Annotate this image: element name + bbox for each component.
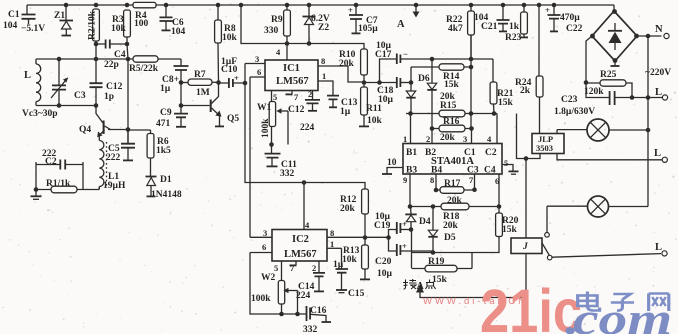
svg-text:C4: C4	[484, 166, 496, 176]
svg-text:2: 2	[426, 134, 430, 144]
svg-text:6: 6	[262, 242, 266, 252]
resistor R11 10k	[359, 83, 383, 127]
svg-text:2k: 2k	[520, 86, 531, 96]
svg-text:1: 1	[322, 71, 326, 81]
svg-text:B4: B4	[431, 166, 442, 176]
svg-text:D1: D1	[160, 175, 172, 185]
capacitor C5 222	[106, 130, 135, 164]
svg-text:10k: 10k	[342, 255, 358, 265]
svg-text:R9: R9	[271, 15, 283, 25]
capacitor C9 471	[156, 83, 188, 130]
wire bridge to N terminal	[637, 35, 662, 37]
capacitor C11 332	[265, 145, 298, 180]
wire C23 node to L terminal 1	[632, 97, 662, 99]
svg-text:332: 332	[303, 325, 318, 334]
svg-text:1µ: 1µ	[340, 107, 351, 117]
zener Z2 6.2V	[303, 3, 330, 46]
svg-text:D4: D4	[419, 217, 431, 227]
svg-text:1µ: 1µ	[160, 84, 171, 94]
wire Q4 collector line	[108, 129, 151, 132]
capacitor C2 222 / resistor R1 1k parallel	[36, 149, 99, 193]
svg-text:10: 10	[387, 158, 397, 168]
svg-text:IC2: IC2	[292, 234, 309, 245]
svg-text:R5/22k: R5/22k	[129, 64, 159, 74]
svg-text:15k: 15k	[502, 225, 518, 235]
wire IC1 pin1 lead to C13	[318, 81, 333, 95]
watermark dianziwang	[578, 292, 669, 312]
wire IC1 pin5 lead	[271, 91, 273, 102]
svg-text:R7: R7	[194, 70, 206, 80]
resistor R24 2k	[515, 3, 543, 134]
capacitor C23 1.8u/630V	[554, 83, 634, 118]
node N terminal	[664, 33, 669, 38]
resistor R7 1M	[179, 70, 219, 98]
svg-text:+: +	[402, 219, 407, 229]
svg-text:B1: B1	[406, 148, 417, 158]
svg-text:C16: C16	[310, 306, 327, 316]
svg-text:C15: C15	[348, 289, 365, 299]
svg-text:R15: R15	[440, 101, 457, 111]
diode D2 (C18 node to B1 line)	[406, 67, 415, 114]
svg-text:LM567: LM567	[276, 76, 309, 87]
zener Z1	[54, 3, 73, 36]
svg-text:6: 6	[257, 67, 261, 77]
svg-text:B3: B3	[406, 166, 417, 176]
svg-text:8: 8	[321, 56, 325, 66]
resistor R10 20k	[339, 49, 367, 83]
wire top +V rail	[27, 4, 614, 6]
node 接A点 arrow	[416, 284, 424, 293]
svg-text:R2/10k: R2/10k	[88, 10, 98, 40]
svg-text:471: 471	[156, 119, 171, 129]
wire IC2 pin8 node line	[327, 236, 389, 238]
resistor R6 1k5	[147, 130, 171, 176]
svg-text:1k: 1k	[509, 22, 520, 32]
svg-text:W1: W1	[257, 103, 272, 113]
wire IC2 pin1 lead	[327, 247, 342, 249]
svg-text:R11: R11	[366, 104, 382, 114]
variable capacitor Vc 3~30p	[22, 59, 68, 119]
svg-text:5: 5	[274, 263, 278, 273]
resistor R16 20k	[430, 117, 472, 143]
node A (arrow on rail)	[397, 3, 420, 30]
svg-text:5: 5	[273, 92, 277, 102]
svg-text:10µ: 10µ	[377, 269, 393, 279]
wire IC1 pin4 supply lead	[286, 44, 288, 61]
resistor R15 20k (inline y113.5)	[406, 92, 497, 117]
svg-text:10k: 10k	[111, 24, 127, 34]
capacitor C10 1uF	[219, 57, 248, 88]
svg-text:15k: 15k	[498, 98, 514, 108]
svg-text:3503: 3503	[536, 143, 553, 153]
svg-text:C3: C3	[74, 91, 86, 101]
svg-text:C21: C21	[481, 22, 498, 32]
resistor R4 100 (inline in rail)	[133, 2, 156, 29]
svg-text:10k: 10k	[367, 116, 383, 126]
svg-text:A: A	[417, 281, 425, 292]
capacitor C12b 224 (pin 2)	[288, 89, 320, 133]
resistor R20 15k	[472, 207, 519, 253]
resistor R17 20k	[434, 179, 477, 206]
resistor R3 10k	[111, 3, 130, 44]
svg-text:C17: C17	[375, 50, 392, 60]
svg-text:1N4148: 1N4148	[151, 190, 182, 200]
svg-text:Vc3~30p: Vc3~30p	[22, 109, 58, 119]
wire R3 bottom to collector line	[127, 44, 128, 59]
svg-text:7: 7	[294, 92, 299, 102]
wire IC2 pin6 lead	[250, 252, 272, 254]
wire STA401A pin1/pin2 leads	[411, 114, 433, 144]
wire D6 node line y59	[432, 58, 493, 60]
svg-text:C2: C2	[45, 157, 57, 167]
diode D5	[428, 207, 456, 253]
svg-text:IC1: IC1	[283, 63, 300, 74]
svg-text:222: 222	[106, 153, 121, 163]
svg-text:Q5: Q5	[227, 114, 239, 124]
resistor R8 10k	[215, 3, 238, 83]
svg-text:20k: 20k	[340, 204, 356, 214]
svg-text:22p: 22p	[104, 60, 119, 70]
wire IC2 pin6 loop to bottom line	[250, 253, 306, 315]
transistor Q4	[79, 106, 111, 141]
svg-text:4k7: 4k7	[448, 24, 463, 34]
lamp EL2	[547, 196, 648, 217]
resistor R2 10k	[88, 3, 100, 44]
svg-text:4: 4	[305, 220, 310, 230]
svg-text:8: 8	[430, 175, 434, 185]
svg-text:20k: 20k	[443, 221, 459, 231]
svg-text:1M: 1M	[196, 88, 210, 98]
wire STA401A pin4 lead	[496, 114, 498, 144]
ground (oscillator)	[31, 187, 42, 199]
capacitor C4 22p	[94, 40, 130, 71]
capacitor C12 1p	[90, 59, 123, 106]
wire IC1 pin6 lead	[250, 76, 265, 78]
svg-text:7: 7	[469, 175, 474, 185]
svg-text:4: 4	[276, 47, 281, 57]
wire R2 bottom to oscillator node	[95, 44, 97, 59]
capacitor C14 224 (pin 2)	[296, 261, 325, 301]
wire IC2 pin7 lead + ground	[295, 261, 297, 265]
svg-text:104: 104	[171, 27, 186, 37]
svg-text:5: 5	[504, 158, 508, 168]
svg-text:Z2: Z2	[318, 23, 329, 33]
wire STA401A pin5 ground	[502, 158, 519, 174]
svg-text:330: 330	[264, 26, 279, 36]
svg-text:L: L	[655, 87, 662, 98]
transistor array U2 STA401A box	[403, 134, 502, 176]
capacitor C21 104	[474, 3, 510, 32]
wire bridge bottom stub	[614, 61, 616, 66]
svg-text:Z1: Z1	[54, 11, 65, 21]
svg-text:100k: 100k	[251, 294, 271, 304]
svg-text:C10: C10	[221, 65, 238, 75]
svg-text:1p: 1p	[104, 92, 114, 102]
op-amp U1 IC1 LM567 box	[265, 60, 318, 91]
resistor R12 20k	[340, 189, 368, 238]
wire IC2 pin4 lead	[303, 183, 305, 230]
resistor R23 1k	[505, 3, 528, 43]
capacitor C18 10u	[377, 77, 411, 105]
svg-text:C20: C20	[375, 257, 392, 267]
wire IC1 pin3 lead	[245, 63, 265, 65]
diode D1 1N4148	[146, 175, 182, 200]
svg-text:L: L	[655, 242, 662, 253]
relay J coil	[511, 156, 542, 297]
svg-text:9: 9	[403, 175, 407, 185]
inductor L1 19uH	[99, 141, 126, 192]
svg-text:3: 3	[463, 134, 467, 144]
svg-text:15k: 15k	[444, 80, 460, 90]
svg-text:L: L	[24, 70, 31, 81]
resistor R18 20k	[408, 203, 502, 231]
svg-text:R16: R16	[443, 117, 460, 127]
resistor R19 15k (parallel loop)	[412, 230, 473, 286]
svg-text:C22: C22	[566, 24, 583, 34]
svg-text:20k: 20k	[339, 59, 355, 69]
svg-text:R1/1k: R1/1k	[46, 179, 71, 189]
svg-text:+: +	[545, 5, 550, 15]
wire IC1 pin8 lead	[318, 66, 364, 82]
wire IC2 pin3 lead	[250, 236, 272, 238]
wire long vertical IC1 pin6 to IC2 pin3	[249, 77, 251, 237]
wire bridge left to R25/C23	[586, 36, 592, 83]
svg-text:C3: C3	[467, 166, 479, 176]
svg-text:1: 1	[403, 134, 407, 144]
svg-text:+: +	[348, 5, 353, 15]
resistor R9 330	[264, 3, 290, 46]
svg-text:−: −	[403, 49, 408, 59]
svg-text:~220V: ~220V	[645, 68, 671, 78]
svg-text:W2: W2	[261, 273, 276, 283]
resistor R22 4k7	[446, 3, 474, 59]
capacitor C13 1u	[327, 96, 358, 117]
wire JLP out high to lamp EL1	[556, 130, 558, 134]
svg-text:3: 3	[263, 228, 267, 238]
svg-text:120k: 120k	[584, 87, 604, 97]
capacitor C20 10u	[375, 238, 433, 280]
svg-text:105µ: 105µ	[358, 24, 378, 34]
capacitor C1	[3, 5, 45, 34]
optocoupler U3 JLP 3503	[532, 134, 564, 154]
svg-text:C9: C9	[160, 108, 172, 118]
node L terminal 3	[662, 251, 667, 256]
lamp EL1	[557, 119, 650, 141]
wire IC1 pin7 lead + ground	[291, 91, 293, 95]
svg-text:10µ: 10µ	[378, 95, 394, 105]
svg-text:3: 3	[255, 54, 259, 64]
svg-text:2: 2	[308, 89, 312, 99]
svg-text:224: 224	[296, 291, 311, 301]
svg-text:C19: C19	[374, 221, 391, 231]
svg-text:100k: 100k	[261, 118, 271, 138]
svg-text:4: 4	[487, 134, 492, 144]
svg-text:Q4: Q4	[79, 125, 91, 135]
svg-text:470µ: 470µ	[560, 13, 580, 23]
wire STA401A pin6 lead	[498, 174, 500, 207]
svg-text:C12: C12	[288, 105, 305, 115]
svg-text:1µ: 1µ	[333, 260, 344, 270]
svg-text:C1: C1	[8, 10, 20, 20]
resistor R25 120k	[584, 70, 632, 98]
resistor R13 10k	[342, 238, 370, 280]
wire mains vertical (~220V)	[647, 36, 649, 207]
svg-text:224: 224	[300, 123, 315, 133]
switch S (relay contact)	[542, 206, 661, 260]
svg-text:1k5: 1k5	[156, 146, 171, 156]
wire oscillator tank top line	[36, 58, 181, 60]
svg-text:104: 104	[3, 21, 18, 31]
node L terminal 2	[662, 157, 667, 162]
svg-text:.com: .com	[565, 295, 672, 334]
resistor R21 15k	[490, 59, 514, 114]
wire long vertical IC1 pin3/C10 to y182 line	[245, 64, 365, 190]
op-amp U4 IC2 LM567 box	[272, 230, 327, 262]
wire R22 node vertical to STA401A pin3	[470, 35, 473, 144]
wire STA401A pin9 lead	[409, 174, 411, 207]
svg-text:D6: D6	[418, 74, 430, 84]
capacitor C7 105u electrolytic	[348, 3, 378, 34]
svg-text:1: 1	[330, 239, 334, 249]
transistor Q5	[179, 80, 240, 126]
diode D4	[405, 207, 431, 232]
svg-text:15k: 15k	[432, 275, 448, 285]
svg-text:C12: C12	[106, 82, 123, 92]
bridge rectifier	[590, 5, 639, 63]
resistor R14 15k	[411, 64, 473, 90]
svg-text:+: +	[402, 241, 407, 251]
wire collector feedback vertical	[127, 59, 129, 144]
capacitor C17 10u	[375, 41, 432, 83]
svg-text:1.8µ/630V: 1.8µ/630V	[554, 107, 595, 117]
wire JLP out low to L terminal 2	[557, 154, 662, 160]
resistor R5 22k (inline)	[129, 56, 159, 74]
svg-text:20k: 20k	[440, 133, 456, 143]
potentiometer W2 100k	[251, 273, 300, 316]
svg-text:A: A	[397, 19, 405, 30]
wire JLP input low side from output node line	[517, 114, 541, 159]
capacitor C6 104	[160, 3, 186, 37]
wire STA401A pin7 lead	[474, 174, 476, 190]
wire IC1 pin8 node line y82.5	[364, 82, 397, 84]
node L terminal 1	[662, 95, 667, 100]
potentiometer W1 100k	[257, 102, 288, 147]
svg-text:10k: 10k	[222, 33, 238, 43]
wire IC2 pin5 lead	[281, 261, 283, 281]
wire oscillator tank bottom line	[36, 105, 96, 107]
svg-text:R23: R23	[505, 33, 522, 43]
svg-text:C2: C2	[485, 148, 497, 158]
wire STA401A pin8 lead	[435, 174, 437, 190]
wire rail drop to +V distribution line y43	[239, 3, 364, 49]
svg-text:100: 100	[134, 19, 149, 29]
capacitor C22 470u electrolytic	[545, 3, 583, 34]
capacitor C15 1u	[333, 248, 365, 299]
capacitor C8 1u	[160, 59, 189, 94]
wire relay to point A	[420, 291, 526, 298]
svg-text:−5.1V: −5.1V	[21, 24, 45, 34]
svg-text:8: 8	[330, 228, 334, 238]
svg-text:2: 2	[312, 263, 316, 273]
diode D6	[418, 57, 437, 129]
svg-text:R25: R25	[600, 70, 617, 80]
svg-text:R17: R17	[444, 179, 461, 189]
svg-text:332: 332	[280, 169, 295, 179]
svg-text:R19: R19	[428, 257, 445, 267]
capacitor C16 332	[303, 306, 331, 334]
capacitor C19 10u	[374, 212, 411, 238]
svg-text:D5: D5	[444, 233, 456, 243]
svg-text:L: L	[654, 148, 661, 159]
wire STA401A pin10 ground	[382, 158, 403, 174]
svg-text:C23: C23	[561, 95, 578, 105]
svg-text:N: N	[655, 24, 663, 35]
svg-text:19µH: 19µH	[103, 181, 126, 191]
inductor L (tank coil)	[24, 59, 41, 106]
svg-text:6: 6	[495, 176, 499, 186]
svg-text:LM567: LM567	[284, 249, 317, 260]
svg-text:J: J	[522, 242, 528, 252]
